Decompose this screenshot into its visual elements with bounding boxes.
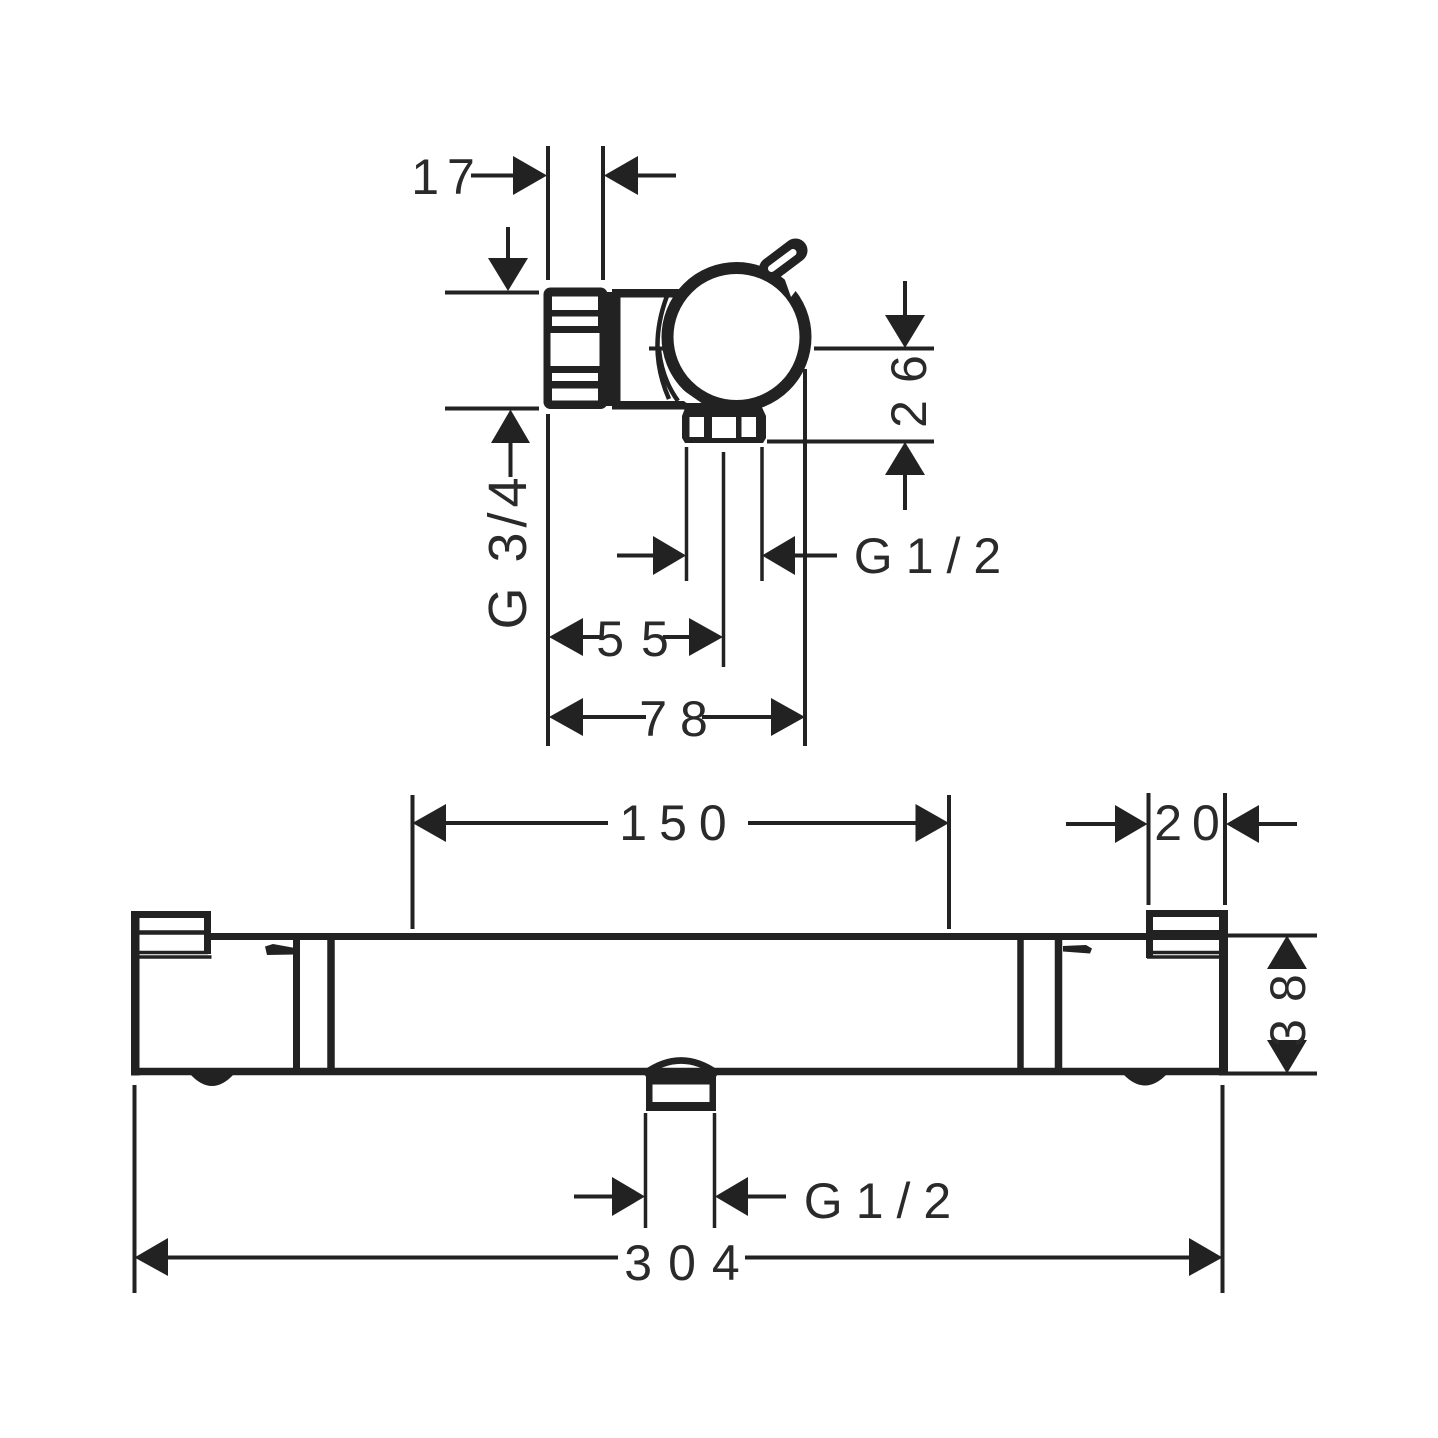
svg-text:304: 304 — [624, 1235, 755, 1291]
right wall cap left edge — [1146, 910, 1153, 958]
dimension 20 left arrow — [1115, 805, 1148, 843]
nut center face — [551, 333, 600, 366]
left volume lever tick — [265, 944, 295, 955]
G1/2 top dim left arrow — [653, 536, 686, 575]
dimension 78 right arrow — [771, 698, 805, 736]
svg-text:G1/2: G1/2 — [854, 528, 1014, 584]
left wall cap right edge — [204, 911, 211, 954]
outlet dome — [644, 1061, 718, 1075]
G1/2 bottom dim right arrow — [715, 1177, 748, 1216]
body bottom corner wedge — [688, 398, 714, 415]
outlet extension line right — [713, 1113, 717, 1228]
dimension 20 left stem — [1066, 822, 1115, 826]
left wall cap lip upper line — [139, 951, 208, 955]
left ring line 2 — [327, 933, 335, 1075]
extension line nut top — [445, 291, 539, 295]
outlet connector block — [646, 1075, 716, 1111]
dimension 304 label — [624, 1235, 755, 1291]
dimension 20 right extension line — [1223, 793, 1227, 905]
thermostat knob circle — [668, 268, 806, 406]
G1/2 top dim right stem — [795, 554, 837, 558]
dimension 55 left arrow — [549, 618, 583, 656]
dimension 26 top reference line — [814, 347, 934, 351]
dimension 78 left stem — [583, 715, 646, 719]
dimension 20 right arrow — [1226, 805, 1259, 843]
G3/4 bottom arrow stem — [509, 443, 513, 477]
dimension 17 label — [411, 149, 483, 205]
dimension 150 label — [619, 795, 738, 851]
dimension 304 right arrow — [1189, 1238, 1223, 1276]
G1/2 bottom dim left arrow — [612, 1177, 645, 1216]
svg-text:G1/2: G1/2 — [804, 1173, 964, 1229]
svg-text:20: 20 — [1154, 795, 1230, 851]
dimension 26 arrow down stem — [903, 281, 907, 316]
white gap slash between body and knob — [669, 386, 707, 413]
dimension 55 right stem — [663, 635, 690, 639]
extension line nut right edge — [601, 146, 605, 280]
safety stop lever outer — [771, 251, 796, 270]
dimension 150 left stem — [446, 821, 608, 825]
hex nut window left — [690, 417, 705, 437]
G3/4 top arrow stem — [506, 227, 510, 261]
dimension 38 arrow up — [1267, 936, 1307, 970]
dimension 20 left extension line — [1147, 793, 1151, 905]
G1/2 bottom dim right stem — [748, 1195, 786, 1199]
dimension 38 top reference line — [1228, 934, 1317, 938]
knob rim tick — [649, 347, 666, 351]
G3/4 bottom arrow up — [491, 410, 530, 444]
safety stop lever inner slot — [772, 253, 794, 269]
dimension 78 right stem — [702, 715, 771, 719]
dimension 17 line left — [471, 174, 514, 178]
dimension 17 arrow right — [604, 156, 638, 195]
nut knurl slot 4 — [552, 389, 598, 401]
bar bottom edge — [135, 1068, 1223, 1076]
dimension 304 left extension line — [133, 1085, 137, 1293]
bar top edge — [208, 933, 1220, 940]
extension line outlet center — [722, 452, 726, 667]
dimension 20 right stem — [1259, 822, 1297, 826]
dimension 38 bottom reference line — [1228, 1072, 1317, 1076]
right ring line 1 — [1017, 933, 1024, 1075]
right mounting foot — [1123, 1074, 1167, 1086]
extension line hex nut right — [760, 447, 764, 581]
dimension 150 right extension line — [947, 795, 951, 929]
outlet hex nut — [682, 403, 766, 443]
nut knurl slot 3 — [552, 373, 598, 381]
extension line knob right edge — [803, 369, 807, 746]
nut knurl slot 1 — [552, 297, 598, 311]
dimension 55 left stem — [583, 635, 603, 639]
knob rim arc inner — [659, 350, 678, 401]
svg-text:38: 38 — [1260, 957, 1316, 1047]
G1/2 bottom label — [804, 1173, 964, 1229]
G1/2 top label — [854, 528, 1014, 584]
left wall cap lip lower line — [139, 955, 212, 959]
dimension 150 left arrow — [413, 804, 447, 842]
hex nut window middle — [712, 417, 736, 438]
dimension 26 label rotated — [881, 338, 937, 428]
G3/4 top arrow down — [488, 258, 528, 291]
right wall cap lip lower line — [1147, 955, 1221, 959]
extension line nut left edge — [546, 146, 550, 280]
dimension 38 arrow down — [1267, 1040, 1307, 1074]
dimension 78 left arrow — [549, 698, 583, 736]
dimension 304 left arrow — [135, 1238, 169, 1276]
knob rim arc outer — [657, 296, 669, 399]
extension line long left — [546, 414, 550, 746]
svg-text:G 3/4: G 3/4 — [478, 472, 538, 629]
svg-text:150: 150 — [619, 795, 738, 851]
left mounting foot — [190, 1074, 234, 1086]
dimension 55 label — [596, 611, 686, 667]
dimension 17 line right — [638, 174, 676, 178]
hex nut window right — [742, 417, 757, 437]
outlet connector window — [653, 1085, 710, 1103]
G1/2 bottom dim left stem — [574, 1195, 613, 1199]
G1/2 top dim left stem — [617, 554, 658, 558]
dimension 304 right extension line — [1221, 1085, 1225, 1293]
right ring line 2 — [1055, 933, 1063, 1075]
right volume lever tick — [1063, 945, 1092, 954]
dimension 20 label — [1154, 795, 1230, 851]
dimension 304 right stem — [745, 1256, 1189, 1260]
bar right end edge — [1219, 910, 1228, 1076]
G1/2 top dim right arrow — [762, 536, 795, 575]
dimension 55 right arrow — [689, 618, 723, 656]
nut knurl slot 2 — [552, 317, 598, 327]
notch between lever and knob — [783, 275, 801, 298]
threaded union nut N1 body — [544, 288, 608, 410]
bar left end edge — [131, 911, 140, 1076]
extension line hex nut left — [685, 447, 689, 581]
dimension 17 arrow left — [513, 156, 547, 195]
right wall cap lip upper line — [1147, 951, 1221, 955]
dimension 26 arrow down — [885, 315, 925, 348]
dimension 304 left stem — [168, 1256, 618, 1260]
G3/4 label rotated — [478, 472, 538, 629]
dimension 26 bottom reference line — [767, 440, 934, 444]
svg-text:26: 26 — [881, 338, 937, 428]
left ring line 1 — [293, 933, 300, 1075]
junction collar between nut and valve body — [602, 292, 612, 406]
dimension 150 left extension line — [411, 795, 415, 929]
right wall cap top edge — [1146, 910, 1227, 917]
dimension 150 right stem — [748, 821, 916, 825]
dimension 78 label — [639, 691, 721, 747]
dimension 150 right arrow — [916, 804, 950, 842]
left wall cap top edge — [131, 911, 211, 918]
right wall cap divider — [1153, 930, 1220, 934]
valve body housing — [616, 293, 695, 405]
extension line nut bottom — [445, 407, 539, 411]
dimension 26 arrow up — [885, 442, 925, 475]
dimension 38 label rotated — [1260, 957, 1316, 1047]
dimension 26 arrow up stem — [903, 475, 907, 510]
outlet extension line left — [644, 1113, 648, 1228]
left wall cap divider — [139, 930, 204, 935]
